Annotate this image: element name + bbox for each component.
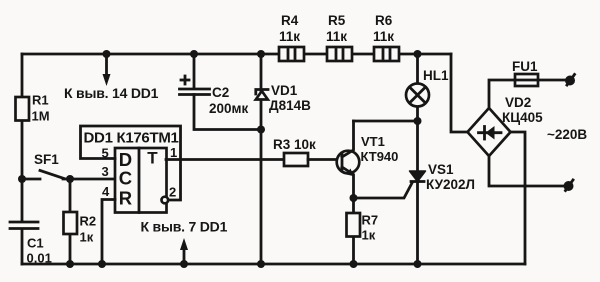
resistor R4: [279, 13, 304, 61]
terminal bottom: [564, 180, 574, 191]
resistor R7: [347, 213, 379, 243]
wire VD1 branch: [260, 54, 263, 264]
node emitter junction: [350, 194, 358, 202]
svg-text:1к: 1к: [80, 230, 94, 245]
node C2 top: [190, 50, 198, 58]
arrow to pin 7 DD1: [141, 219, 228, 265]
svg-text:C2: C2: [212, 85, 229, 100]
svg-text:HL1: HL1: [423, 68, 449, 83]
wire HL1 branch: [416, 54, 419, 264]
resistor R2: [64, 212, 97, 245]
node R7 bottom: [350, 260, 358, 268]
wire top rail: [22, 53, 451, 56]
node pin 4 bottom: [98, 260, 106, 268]
wire feedback pin2 to pin5: [81, 126, 181, 200]
switch SF1: [22, 152, 64, 179]
label 220V: [547, 127, 587, 142]
svg-text:C: C: [119, 168, 132, 189]
arrow to pin 14 DD1: [64, 54, 159, 101]
svg-text:КУ202Л: КУ202Л: [426, 177, 475, 192]
transistor VT1: [337, 121, 399, 198]
node VS1 bottom: [414, 260, 422, 268]
svg-text:R: R: [119, 188, 132, 209]
svg-text:0,01: 0,01: [27, 251, 52, 266]
resistor R5: [326, 13, 352, 61]
pin number 2: [169, 185, 176, 200]
wire SF1 to pin 3: [63, 178, 115, 181]
svg-text:5: 5: [102, 146, 109, 161]
wire bridge bottom to terminal: [489, 156, 563, 186]
svg-text:1М: 1М: [32, 109, 50, 124]
node pin7 arrow bottom: [180, 260, 188, 268]
svg-text:11к: 11к: [326, 29, 347, 44]
svg-text:R1: R1: [32, 93, 49, 108]
node VD1 bottom: [257, 260, 265, 268]
terminal top: [565, 75, 575, 86]
node SF1 left: [18, 175, 26, 183]
fuse FU1: [512, 59, 538, 86]
node R2 bottom: [66, 260, 74, 268]
node pin14 arrow top: [103, 50, 111, 58]
resistor R3: [166, 137, 342, 166]
svg-text:4: 4: [102, 184, 110, 199]
svg-text:3: 3: [102, 164, 109, 179]
svg-text:R4: R4: [281, 13, 299, 28]
svg-text:Д814В: Д814В: [269, 98, 311, 113]
svg-text:КЦ405: КЦ405: [502, 110, 543, 125]
svg-text:КТ940: КТ940: [361, 149, 399, 164]
svg-text:T: T: [147, 149, 158, 168]
node HL1 bottom junction: [414, 117, 422, 125]
bridge rectifier VD2: [468, 95, 544, 156]
pin number 5: [102, 146, 109, 161]
wire C1 to bottom rail: [21, 229, 24, 264]
inverter circle pin 2: [162, 197, 169, 204]
thyristor VS1: [410, 162, 475, 192]
wire bottom rail: [22, 263, 525, 266]
node HL1 top: [414, 50, 422, 58]
svg-text:VD1: VD1: [271, 83, 298, 98]
svg-text:VD2: VD2: [505, 95, 531, 110]
lamp HL1: [406, 68, 449, 107]
svg-text:DD1 К176ТМ1: DD1 К176ТМ1: [84, 130, 179, 147]
wire bridge top to fuse: [489, 80, 515, 108]
ic DD1 flip-flop body: [115, 148, 167, 213]
wire collector to HL1 node: [354, 120, 418, 123]
svg-text:R5: R5: [328, 13, 346, 28]
svg-text:11к: 11к: [373, 29, 394, 44]
wire pin 4 to bottom rail: [102, 200, 115, 265]
svg-text:R7: R7: [362, 213, 379, 228]
node VD1 top: [257, 50, 265, 58]
capacitor C1: [10, 222, 52, 266]
node R2 top: [66, 175, 74, 183]
svg-text:R3 10к: R3 10к: [273, 137, 316, 152]
wire emitter to R7: [352, 198, 355, 264]
wire to bridge left: [451, 54, 467, 132]
wire bridge right to bottom rail: [511, 132, 526, 264]
pin number 1: [170, 145, 177, 160]
svg-text:VS1: VS1: [428, 162, 454, 177]
svg-text:К выв. 14 DD1: К выв. 14 DD1: [64, 85, 159, 101]
resistor R6: [373, 13, 399, 61]
pin number 3: [102, 164, 109, 179]
wire fuse to terminal: [538, 79, 565, 82]
svg-text:11к: 11к: [279, 29, 300, 44]
label DD1 K176TM1: [84, 130, 179, 147]
svg-text:R2: R2: [80, 214, 97, 229]
svg-text:R6: R6: [375, 13, 393, 28]
svg-text:1: 1: [170, 145, 177, 160]
wire gate VS1: [354, 183, 413, 198]
svg-text:200мк: 200мк: [209, 101, 249, 116]
svg-text:FU1: FU1: [512, 59, 538, 74]
svg-text:VT1: VT1: [361, 134, 385, 149]
svg-text:C1: C1: [27, 236, 44, 251]
capacitor C2: [180, 54, 262, 130]
zener diode VD1: [256, 83, 311, 113]
resistor R1: [16, 93, 50, 124]
svg-text:К выв. 7 DD1: К выв. 7 DD1: [141, 219, 228, 235]
svg-text:~220В: ~220В: [547, 127, 587, 142]
wire left branch: [21, 54, 24, 221]
svg-text:1к: 1к: [362, 228, 376, 243]
pin number 4: [102, 184, 110, 199]
node C2 bottom to VD1 line: [257, 126, 265, 134]
svg-text:2: 2: [169, 185, 176, 200]
svg-text:SF1: SF1: [34, 152, 59, 167]
wire R2 branch: [69, 179, 72, 264]
